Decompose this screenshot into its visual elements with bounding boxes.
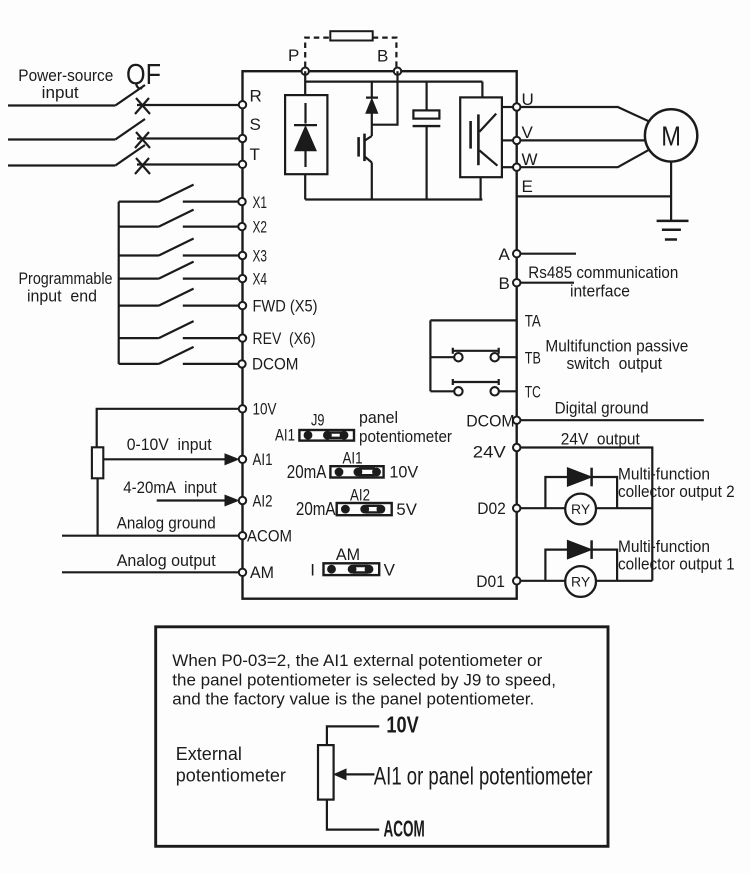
svg-text:AI1 or panel potentiometer: AI1 or panel potentiometer bbox=[374, 763, 593, 791]
svg-text:Digital ground: Digital ground bbox=[555, 399, 649, 418]
terminal FWD bbox=[239, 302, 246, 309]
terminal 24V bbox=[513, 444, 520, 451]
svg-text:RY: RY bbox=[571, 574, 591, 590]
svg-text:the panel potentiometer is sel: the panel potentiometer is selected by J… bbox=[172, 671, 556, 690]
potentiometer resistor bbox=[92, 447, 103, 478]
wire phase T left bbox=[8, 164, 115, 166]
svg-text:B: B bbox=[499, 274, 510, 293]
terminal REV bbox=[239, 334, 246, 341]
wire DC plus rail bbox=[305, 80, 482, 82]
jumper J9 bbox=[299, 430, 354, 441]
svg-text:TB: TB bbox=[525, 349, 541, 368]
label Programmable input end bbox=[19, 270, 113, 306]
label Power-source input bbox=[18, 66, 113, 102]
switch FWD bbox=[119, 289, 243, 306]
wire B to chopper bbox=[372, 71, 398, 125]
svg-text:AI1: AI1 bbox=[275, 426, 295, 445]
cross X on S bbox=[135, 132, 150, 148]
svg-text:potentiometer: potentiometer bbox=[176, 766, 286, 786]
input bus wire bbox=[118, 202, 120, 364]
svg-text:V: V bbox=[522, 123, 534, 142]
wire stub B bbox=[517, 282, 574, 284]
svg-text:P: P bbox=[288, 46, 299, 65]
svg-text:AI2: AI2 bbox=[350, 486, 370, 505]
switch REV bbox=[119, 321, 243, 338]
inverter IGBT symbol bbox=[469, 121, 472, 149]
wire contact left bus bbox=[429, 320, 431, 391]
svg-text:AI1: AI1 bbox=[253, 450, 273, 469]
svg-text:24V output: 24V output bbox=[561, 430, 640, 449]
diode D02 bbox=[567, 468, 591, 487]
wire potentiometer to ACOM bbox=[96, 478, 98, 535]
svg-text:ACOM: ACOM bbox=[384, 816, 425, 842]
svg-text:D02: D02 bbox=[477, 499, 506, 518]
svg-text:V: V bbox=[384, 561, 396, 580]
svg-text:interface: interface bbox=[570, 282, 630, 301]
note wire bottom to ACOM bbox=[327, 800, 379, 830]
label panel potentiometer bbox=[359, 408, 452, 446]
terminal AI2 bbox=[239, 497, 246, 504]
svg-text:T: T bbox=[250, 145, 260, 164]
diode branch D02 bbox=[545, 477, 617, 508]
svg-text:X2: X2 bbox=[253, 218, 268, 237]
svg-text:E: E bbox=[522, 177, 533, 196]
svg-text:External: External bbox=[176, 744, 242, 764]
inverter main block outline bbox=[243, 71, 517, 599]
svg-text:When P0-03=2, the AI1 external: When P0-03=2, the AI1 external potentiom… bbox=[172, 651, 542, 670]
wire stub U bbox=[502, 106, 517, 108]
terminal T bbox=[239, 161, 246, 168]
terminal AM bbox=[239, 569, 246, 576]
svg-text:potentiometer: potentiometer bbox=[359, 427, 452, 446]
svg-text:10V: 10V bbox=[253, 400, 278, 419]
svg-text:RY: RY bbox=[571, 501, 591, 517]
terminal R bbox=[239, 101, 246, 108]
svg-text:Multi-function: Multi-function bbox=[618, 465, 710, 484]
switch blade S bbox=[115, 119, 145, 140]
diode branch D01 bbox=[545, 550, 617, 581]
label External potentiometer bbox=[176, 744, 286, 786]
svg-text:input end: input end bbox=[27, 288, 97, 306]
terminal U bbox=[513, 103, 520, 110]
wire U to motor bbox=[517, 107, 649, 121]
terminal AI1 bbox=[239, 456, 246, 463]
terminal D01 bbox=[513, 577, 520, 584]
switch blade R bbox=[115, 85, 145, 106]
wire 10V rail bbox=[97, 409, 243, 448]
terminal 10V bbox=[239, 405, 246, 412]
svg-text:Analog output: Analog output bbox=[117, 551, 216, 570]
svg-text:20mA: 20mA bbox=[296, 499, 336, 519]
ground symbol bbox=[657, 220, 689, 223]
svg-text:20mA: 20mA bbox=[287, 462, 327, 482]
svg-text:and the factory value is the p: and the factory value is the panel poten… bbox=[172, 690, 534, 709]
jumper AM bbox=[324, 563, 380, 575]
terminal B bbox=[513, 279, 520, 286]
switch blade T bbox=[115, 145, 145, 166]
svg-text:DCOM: DCOM bbox=[252, 355, 299, 374]
terminal DCOM right bbox=[513, 417, 520, 424]
svg-text:J9: J9 bbox=[311, 411, 325, 430]
svg-text:Rs485 communication: Rs485 communication bbox=[528, 263, 678, 282]
note wire 10V top bbox=[327, 726, 379, 745]
wire phase R left bbox=[8, 104, 115, 106]
node B bbox=[394, 68, 401, 75]
rectifier box bbox=[285, 95, 327, 174]
wire phase S left bbox=[8, 138, 115, 140]
wire ACOM bbox=[62, 535, 243, 537]
switch X4 bbox=[119, 262, 243, 279]
svg-text:Programmable: Programmable bbox=[19, 270, 113, 288]
wire wiper to AI1 with arrow bbox=[103, 458, 226, 460]
jumper AI1 bbox=[330, 466, 383, 477]
wire bottom DC bus bbox=[305, 198, 482, 200]
switch X3 bbox=[119, 239, 243, 256]
terminal A bbox=[513, 250, 520, 257]
svg-text:REV (X6): REV (X6) bbox=[253, 329, 316, 348]
svg-text:DCOM: DCOM bbox=[466, 412, 514, 431]
wire V to motor bbox=[517, 139, 646, 141]
DC bus capacitor C bbox=[426, 82, 428, 111]
wire phase R to terminal bbox=[137, 104, 243, 106]
label Multi-function collector output 2 bbox=[618, 465, 735, 502]
wire 24V and right bus bbox=[517, 448, 653, 581]
svg-text:AM: AM bbox=[250, 563, 274, 582]
svg-text:AI1: AI1 bbox=[343, 449, 363, 468]
wire arrow to AI2 bbox=[157, 499, 226, 501]
wire D02 bbox=[517, 507, 653, 509]
diode D01 bbox=[567, 540, 591, 559]
svg-text:I: I bbox=[310, 561, 315, 580]
terminal W bbox=[513, 164, 520, 171]
svg-text:panel: panel bbox=[359, 408, 398, 427]
svg-text:collector output 1: collector output 1 bbox=[618, 555, 735, 574]
terminal V bbox=[513, 137, 520, 144]
svg-text:5V: 5V bbox=[396, 500, 417, 519]
svg-text:10V: 10V bbox=[389, 463, 418, 482]
svg-text:Multifunction passive: Multifunction passive bbox=[545, 337, 688, 356]
svg-text:S: S bbox=[250, 115, 261, 134]
wire stub W bbox=[502, 166, 517, 168]
svg-text:collector output 2: collector output 2 bbox=[618, 482, 735, 501]
note box outline bbox=[156, 627, 608, 847]
svg-text:M: M bbox=[661, 121, 681, 152]
wire stub A bbox=[517, 253, 576, 255]
terminal X1 bbox=[238, 198, 245, 205]
rectifier diode D bbox=[294, 103, 317, 167]
inverter bridge box bbox=[481, 82, 483, 98]
note potentiometer resistor bbox=[318, 745, 334, 800]
terminal X3 bbox=[239, 252, 246, 259]
label Rs485 communication interface bbox=[528, 263, 678, 301]
svg-text:X3: X3 bbox=[253, 247, 268, 266]
terminal ACOM bbox=[239, 532, 246, 539]
terminal DCOM bbox=[238, 360, 245, 367]
svg-text:4-20mA input: 4-20mA input bbox=[123, 478, 217, 497]
svg-text:R: R bbox=[250, 87, 262, 106]
node P bbox=[302, 68, 309, 75]
terminal X2 bbox=[238, 223, 245, 230]
svg-text:0-10V input: 0-10V input bbox=[127, 435, 212, 454]
braking resistor bbox=[330, 31, 372, 40]
wire TA bbox=[430, 319, 516, 321]
svg-text:Multi-function: Multi-function bbox=[618, 537, 710, 556]
dashed link P to braking resistor bbox=[305, 38, 330, 67]
cross X on R bbox=[135, 98, 150, 114]
jumper AI2 bbox=[337, 503, 392, 515]
note text paragraph bbox=[172, 651, 556, 709]
wire inverter bottom bbox=[480, 177, 482, 199]
wire D01 bbox=[517, 580, 653, 582]
LEFT-TERMINAL-LABELS bbox=[247, 87, 318, 583]
svg-text:X4: X4 bbox=[253, 270, 268, 289]
svg-text:10V: 10V bbox=[386, 711, 419, 737]
terminal D02 bbox=[513, 505, 520, 512]
wire phase T to terminal bbox=[137, 163, 243, 165]
wire phase S to terminal bbox=[137, 137, 243, 139]
svg-text:Analog ground: Analog ground bbox=[117, 514, 216, 533]
svg-text:TC: TC bbox=[525, 383, 541, 402]
svg-text:AI2: AI2 bbox=[253, 492, 273, 511]
wire DCOM digital ground bbox=[517, 419, 704, 421]
svg-text:FWD (X5): FWD (X5) bbox=[253, 297, 318, 316]
wire rectifier bottom bbox=[304, 174, 306, 199]
note wiper arrow bbox=[344, 773, 374, 775]
svg-text:ACOM: ACOM bbox=[247, 527, 292, 546]
relay RY D01 bbox=[565, 566, 596, 597]
dashed link braking resistor to B bbox=[373, 38, 397, 67]
contact TC bbox=[430, 390, 516, 392]
label Multi-function collector output 1 bbox=[618, 537, 735, 574]
svg-text:D01: D01 bbox=[476, 572, 505, 591]
wire E to motor ground bbox=[517, 162, 671, 221]
cross X on T bbox=[135, 158, 150, 174]
svg-text:A: A bbox=[499, 245, 511, 264]
svg-text:switch output: switch output bbox=[567, 354, 663, 373]
terminal X4 bbox=[239, 275, 246, 282]
motor M circle bbox=[645, 109, 697, 161]
switch X1 bbox=[119, 185, 243, 202]
switch DCOM bbox=[119, 347, 243, 364]
svg-text:X1: X1 bbox=[253, 193, 268, 212]
svg-text:TA: TA bbox=[525, 312, 542, 331]
wire stub V bbox=[502, 139, 517, 141]
switch X2 bbox=[119, 210, 243, 227]
label Multifunction passive switch output bbox=[545, 337, 688, 374]
wire AM bbox=[62, 571, 243, 573]
svg-text:AM: AM bbox=[336, 545, 360, 564]
contact TB bbox=[430, 356, 516, 358]
svg-text:input: input bbox=[42, 83, 79, 102]
brake chopper diode bbox=[366, 82, 378, 98]
terminal S bbox=[239, 135, 246, 142]
relay RY D02 bbox=[565, 494, 596, 525]
wire P down to rectifier bbox=[304, 71, 306, 95]
brake chopper IGBT Q bbox=[365, 113, 372, 199]
wire W to motor bbox=[517, 150, 649, 167]
svg-text:B: B bbox=[377, 47, 388, 66]
svg-text:24V: 24V bbox=[473, 443, 507, 462]
